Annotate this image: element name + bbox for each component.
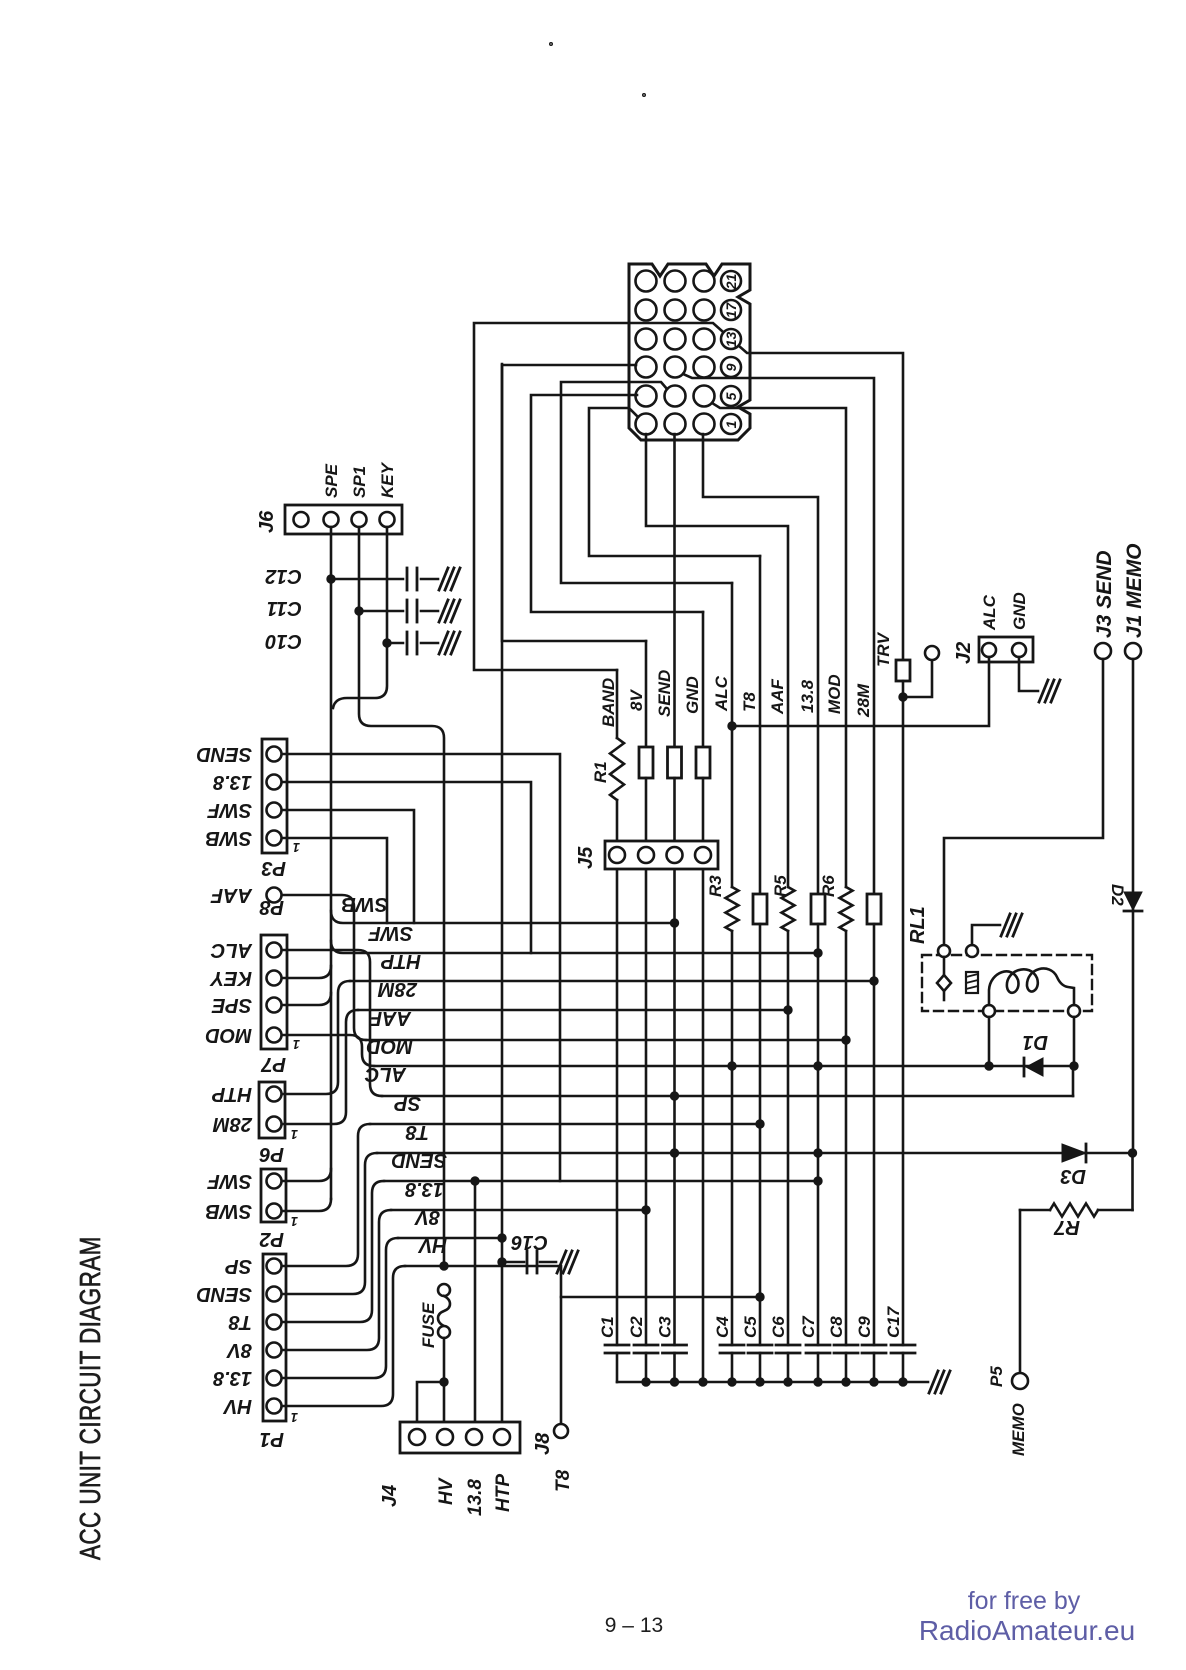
terminal J1 MEMO xyxy=(1125,643,1141,659)
wire P1 SEND riser xyxy=(282,1153,377,1294)
block pin r2c2 xyxy=(665,300,686,321)
connector P6 xyxy=(259,1082,285,1138)
svg-text:T8: T8 xyxy=(740,692,759,712)
svg-text:SEND: SEND xyxy=(196,743,252,765)
svg-text:8V: 8V xyxy=(226,1339,252,1361)
net MOD column / resistor R6 xyxy=(825,674,844,714)
svg-text:P6: P6 xyxy=(259,1143,284,1165)
capacitor C8 xyxy=(827,1316,846,1338)
wire pin1 row col1 to T8 column xyxy=(589,408,760,556)
svg-text:SWB: SWB xyxy=(205,827,252,849)
svg-text:ALC: ALC xyxy=(364,1063,407,1085)
capacitor C17 xyxy=(884,1305,903,1338)
connector P8 xyxy=(267,888,282,903)
block pin r5c3 xyxy=(694,386,715,407)
svg-text:SWF: SWF xyxy=(207,1170,252,1192)
svg-text:J4: J4 xyxy=(379,1485,401,1507)
terminal P5 MEMO xyxy=(1012,1373,1028,1389)
wire pin13 to BAND column xyxy=(474,323,722,670)
svg-text:SWF: SWF xyxy=(207,799,252,821)
wire J2 GND xyxy=(1019,657,1038,691)
svg-text:J8: J8 xyxy=(532,1432,554,1455)
wire J6 KEY merge xyxy=(333,527,387,708)
svg-text:P3: P3 xyxy=(262,857,286,879)
net 13.8 row xyxy=(391,1209,646,1212)
svg-text:AAF: AAF xyxy=(210,884,253,906)
net AAF column / resistor R5 xyxy=(768,678,787,715)
block pin r1c1 xyxy=(636,271,657,292)
wire pin1 row col3 to 13.8 column xyxy=(703,434,818,894)
diode D2 xyxy=(1108,884,1127,906)
wire P3 SWF xyxy=(282,810,414,923)
wire P3 SEND xyxy=(282,754,560,1181)
svg-text:HTP: HTP xyxy=(380,950,421,972)
svg-text:SEND: SEND xyxy=(655,670,674,717)
net 28M column xyxy=(854,683,873,718)
svg-text:21: 21 xyxy=(723,274,739,291)
net 8V row xyxy=(398,1237,502,1240)
wire P6 28M riser xyxy=(282,1010,358,1124)
svg-text:C8: C8 xyxy=(827,1316,846,1338)
svg-text:C10: C10 xyxy=(265,630,302,652)
terminal J3 SEND xyxy=(1095,643,1111,659)
svg-text:28M: 28M xyxy=(212,1113,253,1135)
net SP row xyxy=(370,1123,760,1126)
capacitor C6 xyxy=(769,1316,788,1338)
svg-text:SP1: SP1 xyxy=(350,466,369,498)
svg-text:R1: R1 xyxy=(591,761,610,783)
svg-text:MEMO: MEMO xyxy=(1009,1403,1028,1456)
connector P2 xyxy=(261,1169,286,1222)
wire P6 HTP riser xyxy=(282,981,350,1094)
svg-text:C1: C1 xyxy=(598,1316,617,1338)
diode D1 xyxy=(1022,1031,1048,1053)
wire pin5 row to GND column xyxy=(531,395,703,612)
svg-text:SP: SP xyxy=(225,1255,252,1277)
svg-text:P8: P8 xyxy=(259,896,284,918)
connector J2 xyxy=(979,637,1033,662)
svg-text:SP: SP xyxy=(394,1092,421,1114)
svg-text:C2: C2 xyxy=(627,1316,646,1338)
block pin 21 xyxy=(721,271,741,291)
relay RL1 enclosure xyxy=(907,906,929,944)
svg-text:MOD: MOD xyxy=(366,1035,413,1057)
svg-text:C5: C5 xyxy=(741,1316,760,1338)
svg-text:C4: C4 xyxy=(713,1316,732,1338)
scan speck xyxy=(550,43,553,46)
block pin r5c1 xyxy=(636,386,657,407)
net HTP row xyxy=(350,980,874,983)
svg-text:GND: GND xyxy=(1010,592,1029,630)
block pin r3c2 xyxy=(665,329,686,350)
wire pin5 row col2 to ALC column xyxy=(561,382,732,583)
svg-text:RL1: RL1 xyxy=(907,906,929,944)
relay contact a xyxy=(938,945,950,957)
svg-text:D2: D2 xyxy=(1108,884,1127,906)
wire HTP J4 feeder xyxy=(501,364,504,1429)
block pin 13 xyxy=(721,329,741,349)
block pin r2c1 xyxy=(636,300,657,321)
svg-text:J5: J5 xyxy=(575,846,597,869)
connector P3 xyxy=(262,739,287,853)
capacitor C10 xyxy=(265,630,302,652)
svg-text:SEND: SEND xyxy=(196,1283,252,1305)
wire pin9 row to 8V column xyxy=(502,365,646,641)
svg-text:C11: C11 xyxy=(267,597,302,619)
wire pin9 to 28M column xyxy=(683,374,874,894)
resistor R7 xyxy=(1054,1216,1080,1238)
block pin r1c2 xyxy=(665,271,686,292)
svg-text:D1: D1 xyxy=(1022,1031,1048,1053)
connector P7 xyxy=(261,935,287,1049)
wire P3 SWB xyxy=(282,838,387,923)
svg-text:KEY: KEY xyxy=(378,461,397,498)
svg-text:9 – 13: 9 – 13 xyxy=(605,1614,663,1637)
svg-text:P2: P2 xyxy=(260,1228,284,1250)
net 28M row xyxy=(358,1009,788,1012)
connector J5 xyxy=(605,841,718,869)
connector J6 xyxy=(285,505,402,534)
svg-text:ALC: ALC xyxy=(712,675,731,712)
resistor R1 BAND xyxy=(591,761,610,783)
svg-text:8V: 8V xyxy=(627,689,646,711)
svg-text:R3: R3 xyxy=(706,875,725,897)
svg-text:1: 1 xyxy=(293,1037,300,1052)
capacitor C9 xyxy=(855,1316,874,1338)
terminal TRV xyxy=(903,660,932,697)
connector J8 xyxy=(554,1424,568,1438)
wire J3 to relay xyxy=(944,659,1103,943)
connector J4 xyxy=(400,1422,520,1453)
svg-text:8V: 8V xyxy=(414,1206,440,1228)
svg-text:13: 13 xyxy=(723,332,739,348)
svg-text:AAF: AAF xyxy=(369,1007,412,1029)
wire P1 T8 riser xyxy=(282,1181,384,1322)
svg-text:SPE: SPE xyxy=(211,994,252,1016)
capacitor C5 xyxy=(741,1316,760,1338)
connector block P4 outline xyxy=(629,264,750,440)
wire coil terminals down xyxy=(988,1017,991,1066)
capacitor C4 xyxy=(713,1316,732,1338)
wire J8 T8 branch xyxy=(561,1296,760,1299)
wire P7 KEY merge xyxy=(282,966,331,978)
net MOD row xyxy=(374,1065,1074,1068)
svg-text:HTP: HTP xyxy=(211,1083,252,1105)
svg-text:1: 1 xyxy=(291,1214,298,1229)
svg-text:1: 1 xyxy=(291,1410,298,1425)
svg-text:MOD: MOD xyxy=(825,674,844,714)
block pin r3c1 xyxy=(636,329,657,350)
wire P7 SPE merge xyxy=(282,993,331,1005)
wire J4 pin1 jog xyxy=(417,1382,444,1429)
net T8 row xyxy=(377,1152,1133,1155)
svg-text:13.8: 13.8 xyxy=(798,679,817,713)
wire P7 ALC xyxy=(282,950,382,1096)
block pin r3c3 xyxy=(694,329,715,350)
svg-text:SWB: SWB xyxy=(205,1200,252,1222)
wire J1 MEMO down xyxy=(1132,659,1135,1153)
wire P3 13.8 xyxy=(282,782,531,953)
wire P7 MOD xyxy=(282,1035,374,1066)
wire ALC row to D1 cathode junction xyxy=(1072,1066,1075,1096)
block pin 5 xyxy=(721,386,741,406)
svg-text:TRV: TRV xyxy=(874,631,893,667)
net SWB row xyxy=(331,911,675,923)
svg-text:C3: C3 xyxy=(656,1316,675,1338)
net GND column xyxy=(683,676,702,714)
wire R7 to P5 xyxy=(1019,1210,1022,1373)
wire relay common to ground xyxy=(972,925,1000,945)
svg-text:AAF: AAF xyxy=(768,678,787,715)
capacitor C16 xyxy=(510,1231,548,1253)
net HV row xyxy=(405,1266,561,1424)
svg-text:1: 1 xyxy=(291,1127,298,1142)
svg-text:for free by: for free by xyxy=(968,1587,1081,1615)
svg-text:9: 9 xyxy=(723,363,739,371)
block pin r6c3 xyxy=(694,414,715,435)
capacitor C2 xyxy=(627,1316,646,1338)
svg-text:T8: T8 xyxy=(553,1469,574,1492)
svg-text:13.8: 13.8 xyxy=(212,771,252,793)
net SEND row xyxy=(384,1180,818,1183)
svg-text:MOD: MOD xyxy=(205,1024,252,1046)
net ALC row xyxy=(382,1095,1073,1098)
svg-text:BAND: BAND xyxy=(599,678,618,727)
block pin r6c2 xyxy=(665,414,686,435)
svg-text:C9: C9 xyxy=(855,1316,874,1338)
wire P1 SP riser xyxy=(282,1124,370,1266)
svg-text:RadioAmateur.eu: RadioAmateur.eu xyxy=(919,1615,1135,1646)
diode D3 xyxy=(1060,1165,1086,1187)
svg-text:SPE: SPE xyxy=(322,463,341,498)
ground bus xyxy=(617,1381,928,1384)
net 13.8 column xyxy=(798,679,817,713)
svg-text:D3: D3 xyxy=(1060,1165,1086,1187)
svg-text:J6: J6 xyxy=(256,510,278,533)
block pin r2c3 xyxy=(694,300,715,321)
svg-text:28M: 28M xyxy=(854,683,873,718)
svg-text:SWF: SWF xyxy=(368,922,413,944)
net AAF row xyxy=(366,1039,846,1042)
block pin r6c1 xyxy=(636,414,657,435)
svg-text:HV: HV xyxy=(418,1234,447,1256)
svg-text:T8: T8 xyxy=(228,1311,252,1333)
svg-text:ALC: ALC xyxy=(210,939,253,961)
net SEND column xyxy=(655,670,674,717)
capacitor C3 xyxy=(656,1316,675,1338)
svg-text:P1: P1 xyxy=(260,1428,284,1450)
wire J6 SPE bundle down xyxy=(330,527,333,1199)
wire P1 HV riser xyxy=(282,1266,405,1406)
net 8V column xyxy=(627,689,646,711)
capacitor C12 xyxy=(265,565,302,587)
net ALC column / resistor R3 xyxy=(712,675,731,712)
wire P2 SWF merge xyxy=(282,1169,331,1181)
svg-text:13.8: 13.8 xyxy=(212,1367,252,1389)
svg-text:FUSE: FUSE xyxy=(419,1302,438,1348)
svg-text:C12: C12 xyxy=(265,565,302,587)
block pin r4c3 xyxy=(694,357,715,378)
title ACC UNIT CIRCUIT DIAGRAM xyxy=(73,1236,107,1560)
svg-text:P5: P5 xyxy=(987,1366,1006,1387)
svg-text:HV: HV xyxy=(223,1395,252,1417)
block pin r4c2 xyxy=(665,357,686,378)
net SWF row xyxy=(331,941,818,953)
svg-text:KEY: KEY xyxy=(209,967,252,989)
fuse FUSE xyxy=(419,1302,438,1348)
net TRV column xyxy=(874,631,893,667)
block pin 9 xyxy=(721,357,741,377)
svg-text:HTP: HTP xyxy=(493,1474,514,1512)
svg-text:R7: R7 xyxy=(1054,1216,1080,1238)
svg-text:1: 1 xyxy=(293,840,300,855)
svg-text:SWB: SWB xyxy=(341,893,388,915)
block pin r4c1 xyxy=(636,357,657,378)
svg-text:C16: C16 xyxy=(510,1231,548,1253)
svg-text:C7: C7 xyxy=(799,1315,818,1338)
wire SEND-row to J4 pin3 xyxy=(474,1181,477,1429)
connector P1 xyxy=(263,1254,286,1421)
svg-text:J3 SEND: J3 SEND xyxy=(1093,550,1116,638)
relay contact b xyxy=(966,945,978,957)
relay coil xyxy=(983,1005,995,1017)
block pin r1c3 xyxy=(694,271,715,292)
block pin 1 xyxy=(721,414,741,434)
block pin r5c2 xyxy=(665,386,686,407)
svg-text:R6: R6 xyxy=(819,875,838,897)
svg-text:28M: 28M xyxy=(377,978,418,1000)
wire P8 AAF xyxy=(282,895,366,1040)
svg-text:C17: C17 xyxy=(884,1305,903,1338)
capacitor C1 xyxy=(598,1316,617,1338)
capacitor C7 xyxy=(799,1315,818,1338)
capacitor C11 xyxy=(267,597,302,619)
svg-text:5: 5 xyxy=(723,392,739,400)
svg-text:13.8: 13.8 xyxy=(465,1479,486,1516)
svg-text:GND: GND xyxy=(683,676,702,714)
svg-text:C6: C6 xyxy=(769,1316,788,1338)
svg-text:T8: T8 xyxy=(405,1121,429,1143)
wire pin5 to MOD column xyxy=(712,403,846,887)
wire pin1 row col2 SEND column xyxy=(673,434,676,747)
wire J2 ALC xyxy=(732,657,989,726)
wire P1 13.8 riser xyxy=(282,1238,398,1378)
svg-text:J2: J2 xyxy=(953,642,975,664)
svg-text:J1 MEMO: J1 MEMO xyxy=(1123,543,1146,638)
svg-text:ALC: ALC xyxy=(980,594,999,631)
svg-text:1: 1 xyxy=(723,420,739,428)
svg-text:HV: HV xyxy=(436,1477,457,1505)
svg-text:17: 17 xyxy=(723,302,739,319)
svg-text:P7: P7 xyxy=(261,1053,286,1075)
wire pin13 to TRV column xyxy=(739,346,903,660)
svg-text:ACC UNIT CIRCUIT DIAGRAM: ACC UNIT CIRCUIT DIAGRAM xyxy=(73,1236,107,1560)
wire D3 to R7 xyxy=(1131,1153,1134,1210)
wire P2 SWB merge xyxy=(282,1199,331,1211)
svg-text:13.8: 13.8 xyxy=(404,1178,444,1200)
block pin 17 xyxy=(721,300,741,320)
net T8 column xyxy=(740,692,759,712)
wire P1 8V riser xyxy=(282,1210,391,1350)
wire J6 SP1 to fuse bundle xyxy=(359,527,444,1266)
wire pin1 row col1 to AAF column xyxy=(646,434,788,887)
svg-text:SEND: SEND xyxy=(391,1149,447,1171)
